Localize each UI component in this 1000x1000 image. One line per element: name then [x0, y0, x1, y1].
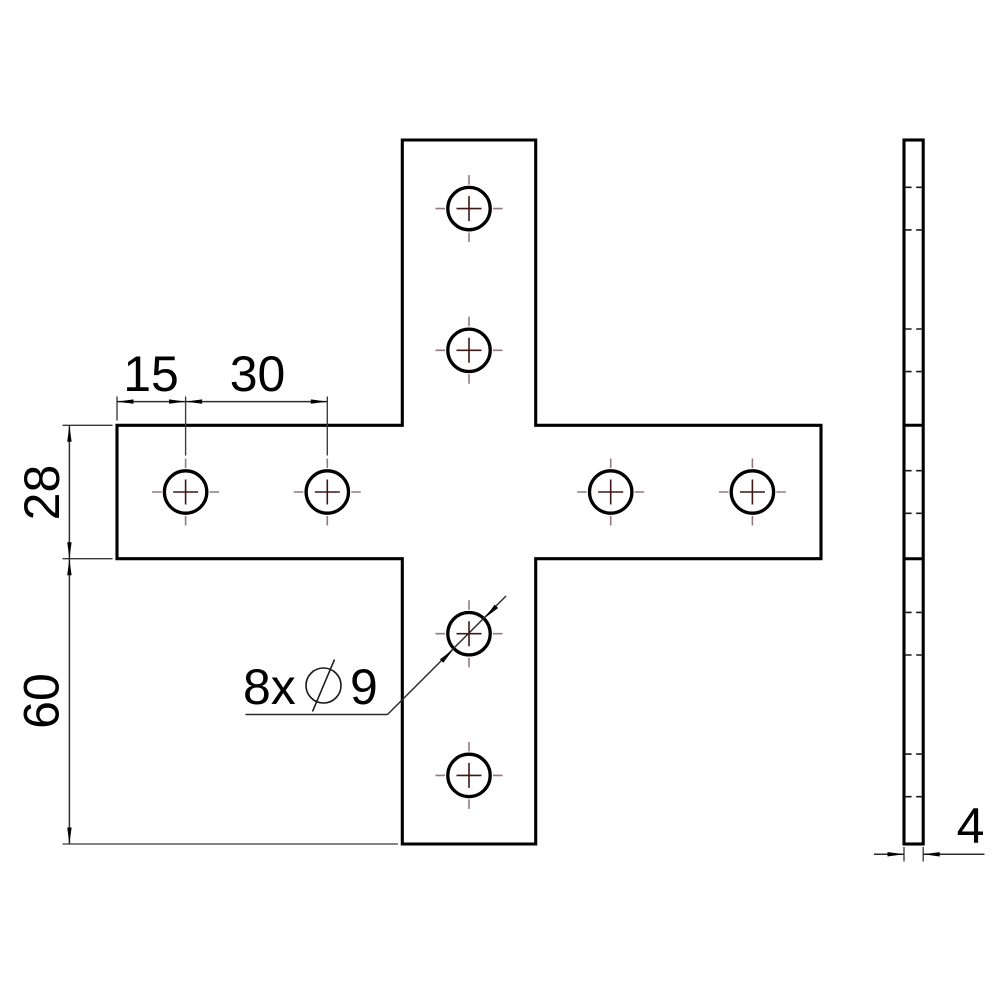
dimension 60: bottom arrow — [67, 828, 71, 845]
svg-text:15: 15 — [123, 346, 179, 402]
dimension 4: text — [957, 798, 985, 854]
dimension 28/60: extension line middle — [63, 558, 113, 560]
dimension 60: dimension line — [68, 559, 70, 844]
dimension 4: dimension line right segment — [923, 853, 984, 855]
svg-text:30: 30 — [230, 346, 286, 402]
center mark H7 — [436, 600, 503, 667]
dimension 60: extension line bottom — [63, 843, 399, 845]
hole H6 right arm outer — [731, 471, 773, 513]
dimension 28: extension line top — [63, 424, 113, 426]
side view hidden hole lines — [906, 187, 922, 796]
svg-text:9: 9 — [350, 659, 378, 715]
dimension 30: dimension line — [186, 401, 328, 403]
leader 8x d9: text 9 — [350, 659, 378, 715]
leader 8x d9: lower arrow — [440, 649, 453, 662]
dimension 28: bottom arrow — [67, 542, 71, 559]
center mark H8 — [436, 742, 503, 809]
front view cross outline — [117, 140, 821, 844]
leader 8x d9: diagonal leader line — [388, 596, 507, 715]
hole H8 bottom arm lower — [448, 754, 490, 796]
side view arm bottom edge — [904, 557, 923, 560]
dimension 4: left arrow pointing right — [888, 852, 905, 856]
hole H1 top arm upper — [448, 187, 490, 229]
dimension 30: extension line at second hole — [326, 397, 328, 456]
dimension 4: extension line left — [903, 847, 905, 862]
dimension 15/30: extension line at first hole — [185, 397, 187, 456]
center mark H4 — [294, 459, 361, 526]
dimension 15: dimension line — [117, 401, 186, 403]
dimension 60: text — [14, 673, 70, 729]
dimension 30: right arrow — [311, 399, 328, 403]
dimension 4: right arrow pointing left — [923, 852, 940, 856]
leader 8x d9: underline — [246, 714, 388, 716]
leader 8x d9: text 8x — [243, 659, 296, 715]
center mark H3 — [152, 459, 219, 526]
hole H2 top arm lower — [448, 329, 490, 371]
hole H5 right arm inner — [590, 471, 632, 513]
hole H7 bottom arm upper — [448, 613, 490, 655]
dimension 28: dimension line — [68, 425, 70, 558]
dimension 15: left arrow — [117, 399, 134, 403]
dimension 15: right arrow — [169, 399, 186, 403]
center mark H2 — [436, 317, 503, 384]
hole H3 left arm outer — [164, 471, 206, 513]
dimension 15: text — [123, 346, 179, 402]
leader 8x d9: upper arrow — [485, 605, 498, 618]
svg-text:28: 28 — [14, 465, 70, 521]
svg-text:4: 4 — [957, 798, 985, 854]
hole H4 left arm inner — [306, 471, 348, 513]
center mark H1 — [436, 175, 503, 242]
center mark H6 — [719, 459, 786, 526]
side view plate outline — [904, 140, 923, 844]
dimension 4: extension line right — [922, 847, 924, 862]
dimension 30: left arrow — [186, 399, 203, 403]
dimension 30: text — [230, 346, 286, 402]
dimension 28: text — [14, 465, 70, 521]
dimension 4: dimension line left segment — [874, 853, 904, 855]
center mark H5 — [577, 459, 644, 526]
svg-text:8x: 8x — [243, 659, 296, 715]
leader 8x d9: diameter symbol circle — [306, 668, 341, 703]
dimension 15: extension line left — [116, 397, 118, 421]
dimension 28: top arrow — [67, 425, 71, 442]
side view arm top edge — [904, 424, 923, 427]
dimension 60: top arrow — [67, 559, 71, 576]
svg-text:60: 60 — [14, 673, 70, 729]
leader 8x d9: diameter symbol slash — [313, 660, 335, 712]
